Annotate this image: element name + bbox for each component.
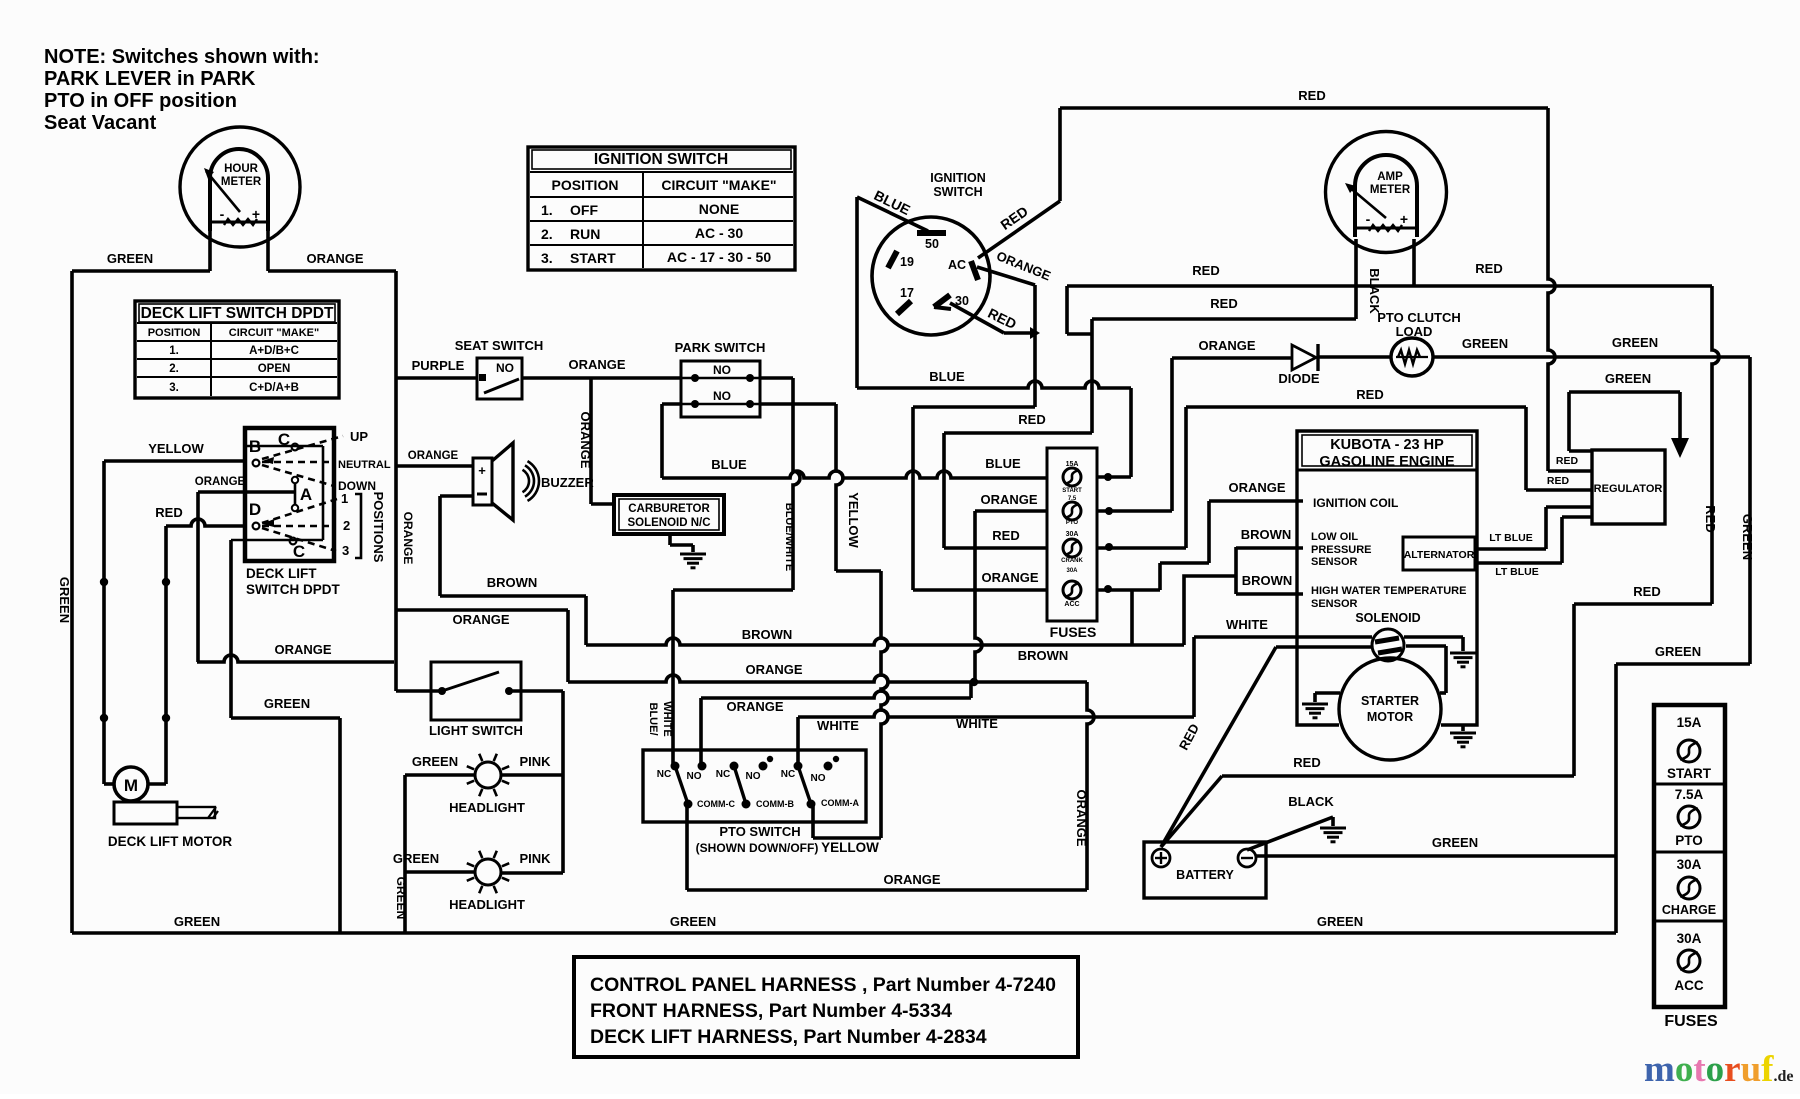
label POSITIONS bbox=[371, 492, 386, 563]
svg-text:CIRCUIT "MAKE": CIRCUIT "MAKE" bbox=[229, 327, 319, 339]
svg-text:START: START bbox=[570, 250, 616, 266]
wire GREEN clutch bbox=[1433, 355, 1750, 359]
svg-text:GREEN: GREEN bbox=[264, 696, 310, 711]
wire fuse4 right brown bus bbox=[1097, 547, 1303, 645]
wire park row2 to yellow bbox=[760, 404, 888, 838]
fuse panel right bbox=[1654, 705, 1725, 1007]
svg-text:KUBOTA - 23 HP: KUBOTA - 23 HP bbox=[1330, 437, 1444, 453]
svg-text:REGULATOR: REGULATOR bbox=[1594, 483, 1663, 495]
wire headlight2 pink bbox=[502, 871, 563, 875]
label WHITE 2 bbox=[956, 716, 998, 731]
svg-text:CRANK: CRANK bbox=[1061, 558, 1083, 564]
wire amp meter plus bbox=[1412, 239, 1416, 286]
wire PURPLE bbox=[396, 376, 477, 380]
wire ORANGE to COMM-C bbox=[687, 682, 1094, 890]
wire light switch left bbox=[396, 689, 442, 693]
label GREEN bottom left bbox=[174, 914, 220, 929]
svg-text:IGNITION SWITCH: IGNITION SWITCH bbox=[594, 151, 728, 168]
label RED amp right bbox=[1475, 261, 1502, 276]
svg-text:ORANGE: ORANGE bbox=[745, 662, 802, 677]
label YELLOW bottom bbox=[821, 840, 879, 855]
pto clutch load coil bbox=[1391, 338, 1433, 376]
svg-text:RED: RED bbox=[1633, 584, 1660, 599]
svg-text:PARK LEVER in PARK: PARK LEVER in PARK bbox=[44, 68, 256, 90]
svg-text:C: C bbox=[278, 430, 290, 449]
svg-text:PRESSURE: PRESSURE bbox=[1311, 544, 1372, 556]
label DIODE bbox=[1278, 371, 1320, 386]
svg-text:WHITE: WHITE bbox=[817, 718, 859, 733]
svg-text:C+D/A+B: C+D/A+B bbox=[249, 382, 299, 394]
svg-text:ORANGE: ORANGE bbox=[1198, 338, 1255, 353]
battery bbox=[1144, 842, 1266, 898]
label ORANGE seat-park bbox=[568, 357, 625, 372]
svg-text:30A: 30A bbox=[1066, 531, 1079, 538]
wire yellow vertical bbox=[100, 461, 108, 784]
svg-text:30A: 30A bbox=[1677, 931, 1702, 946]
svg-text:RED: RED bbox=[1018, 412, 1045, 427]
svg-text:SEAT SWITCH: SEAT SWITCH bbox=[455, 338, 544, 353]
wire BLUE ignition horizontal bbox=[857, 381, 1131, 477]
deck switch dashed 3 ray bbox=[262, 528, 336, 551]
label ORANGE AC diag bbox=[994, 248, 1053, 283]
svg-text:15A: 15A bbox=[1066, 461, 1079, 468]
svg-text:LIGHT SWITCH: LIGHT SWITCH bbox=[429, 723, 523, 738]
label BLUE left bbox=[711, 457, 747, 472]
ignition terminal 17 bbox=[897, 286, 914, 314]
label ORANGE vertical seat bbox=[401, 512, 415, 565]
svg-text:BROWN: BROWN bbox=[1018, 648, 1069, 663]
svg-text:GREEN: GREEN bbox=[1432, 835, 1478, 850]
svg-text:YELLOW: YELLOW bbox=[148, 441, 204, 456]
label FUSES right bbox=[1664, 1013, 1718, 1030]
label BLUE/ WHITE lower bbox=[647, 701, 673, 736]
svg-text:BLUE: BLUE bbox=[711, 457, 747, 472]
svg-text:BATTERY: BATTERY bbox=[1176, 868, 1234, 882]
label ORANGE comm vertical bbox=[1074, 789, 1089, 846]
buzzer bbox=[473, 443, 539, 520]
label IGNITION COIL bbox=[1313, 496, 1398, 510]
svg-text:ORANGE: ORANGE bbox=[981, 570, 1038, 585]
deck lift switch DPDT box bbox=[231, 428, 334, 561]
wire RED AC vertical right bbox=[1548, 108, 1592, 471]
label GREEN bottom right bbox=[1317, 914, 1363, 929]
svg-text:NC: NC bbox=[657, 769, 671, 780]
green arrow into regulator bbox=[1569, 392, 1689, 458]
label ORANGE carb vertical bbox=[578, 411, 593, 468]
wire red vertical bbox=[162, 526, 170, 784]
label PTO SWITCH bbox=[696, 824, 819, 855]
svg-text:RED: RED bbox=[1356, 387, 1383, 402]
wire red Z to junction bbox=[1067, 286, 1092, 334]
wire fuse2 right to diode bbox=[1097, 358, 1292, 515]
svg-text:METER: METER bbox=[1370, 184, 1411, 196]
deck switch contact A bbox=[292, 477, 312, 511]
wire YELLOW to deck switch bbox=[104, 459, 245, 463]
svg-text:FUSES: FUSES bbox=[1050, 624, 1097, 640]
svg-text:GREEN: GREEN bbox=[1612, 335, 1658, 350]
svg-text:BLUE: BLUE bbox=[985, 456, 1021, 471]
svg-text:PTO SWITCH: PTO SWITCH bbox=[719, 824, 800, 839]
svg-text:BLUE: BLUE bbox=[929, 369, 965, 384]
svg-text:WHITE: WHITE bbox=[956, 716, 998, 731]
wire RED to deck switch bbox=[166, 519, 245, 526]
svg-text:METER: METER bbox=[221, 176, 262, 188]
svg-text:BLUE/: BLUE/ bbox=[647, 703, 659, 736]
label ORANGE comm bottom bbox=[883, 872, 940, 887]
svg-text:motoruf.de: motoruf.de bbox=[1644, 1049, 1794, 1090]
wire orange deck vertical bbox=[196, 492, 200, 662]
svg-text:17: 17 bbox=[900, 286, 914, 300]
svg-text:SOLENOID N/C: SOLENOID N/C bbox=[627, 517, 710, 529]
svg-text:START: START bbox=[1062, 488, 1082, 494]
label RED regulator lower bbox=[1547, 475, 1570, 487]
svg-text:+: + bbox=[478, 463, 486, 478]
svg-text:CIRCUIT "MAKE": CIRCUIT "MAKE" bbox=[661, 177, 776, 193]
svg-text:NC: NC bbox=[781, 769, 795, 780]
label 3 bbox=[342, 543, 349, 558]
svg-text:30A: 30A bbox=[1677, 857, 1702, 872]
svg-text:ALTERNATOR: ALTERNATOR bbox=[1404, 549, 1475, 561]
svg-text:BUZZER: BUZZER bbox=[541, 475, 594, 490]
label BLACK battery bbox=[1288, 794, 1334, 809]
headlight 2 bbox=[467, 851, 509, 893]
label ORANGE coil bbox=[1228, 480, 1285, 495]
svg-text:GREEN: GREEN bbox=[394, 877, 408, 920]
svg-text:BLUE/WHITE: BLUE/WHITE bbox=[783, 503, 795, 571]
label GREEN clutch1 bbox=[1462, 336, 1508, 351]
wire starter left ground bbox=[1315, 693, 1340, 702]
deck switch contact B bbox=[249, 437, 261, 466]
svg-text:-: - bbox=[1366, 211, 1371, 227]
pto NO dots bbox=[698, 756, 840, 771]
svg-text:RUN: RUN bbox=[570, 226, 600, 242]
positions bracket bbox=[355, 494, 361, 558]
svg-text:ORANGE: ORANGE bbox=[274, 642, 331, 657]
svg-text:COMM-C: COMM-C bbox=[697, 799, 735, 809]
wire green deck vertical bbox=[231, 540, 340, 933]
svg-text:SWITCH DPDT: SWITCH DPDT bbox=[246, 582, 340, 597]
svg-text:CARBURETOR: CARBURETOR bbox=[628, 503, 710, 515]
wire orange deck bottom bbox=[197, 655, 394, 662]
wire orange branch to carburetor bbox=[591, 378, 614, 504]
ignition terminal 50 bbox=[917, 233, 946, 251]
svg-text:NO: NO bbox=[713, 363, 731, 377]
svg-text:DECK LIFT MOTOR: DECK LIFT MOTOR bbox=[108, 834, 232, 849]
deck switch dashed DOWN ray bbox=[262, 465, 334, 486]
svg-text:AMP: AMP bbox=[1377, 171, 1403, 183]
wire ORANGE run A bbox=[396, 610, 1087, 686]
svg-text:SOLENOID: SOLENOID bbox=[1355, 611, 1420, 625]
svg-text:D: D bbox=[249, 500, 261, 519]
svg-text:NO: NO bbox=[746, 771, 761, 782]
label ORANGE hour meter bbox=[306, 251, 363, 266]
svg-text:GREEN: GREEN bbox=[57, 577, 72, 623]
svg-text:IGNITION COIL: IGNITION COIL bbox=[1313, 496, 1398, 510]
label LOW OIL PRESSURE SENSOR bbox=[1311, 531, 1372, 568]
svg-text:3: 3 bbox=[342, 543, 349, 558]
label DECK LIFT MOTOR bbox=[108, 834, 232, 849]
svg-text:SENSOR: SENSOR bbox=[1311, 556, 1358, 568]
svg-text:-: - bbox=[220, 206, 225, 222]
svg-text:1.: 1. bbox=[169, 345, 179, 357]
label RED 30 diag bbox=[985, 305, 1019, 332]
svg-text:RED: RED bbox=[1475, 261, 1502, 276]
svg-text:NO: NO bbox=[687, 771, 702, 782]
svg-text:BROWN: BROWN bbox=[1242, 573, 1293, 588]
svg-text:1: 1 bbox=[341, 491, 348, 506]
wire hour meter to green bbox=[72, 230, 210, 933]
wire GREEN bottom bbox=[72, 931, 1616, 935]
alternator box bbox=[1403, 537, 1475, 570]
svg-text:LT BLUE: LT BLUE bbox=[1495, 566, 1539, 578]
label RED fuse3 bbox=[992, 528, 1019, 543]
label YELLOW vertical bbox=[846, 492, 861, 548]
svg-text:ORANGE: ORANGE bbox=[408, 450, 459, 462]
label HIGH WATER TEMPERATURE SENSOR bbox=[1311, 585, 1466, 610]
wire RED 30 diag bbox=[950, 303, 1040, 339]
diode D1 bbox=[1292, 344, 1391, 371]
svg-text:15A: 15A bbox=[1677, 715, 1702, 730]
label BUZZER bbox=[541, 475, 594, 490]
wire BROWN buzzer bbox=[440, 496, 586, 645]
svg-text:NO: NO bbox=[713, 389, 731, 403]
label ORANGE deck bottom bbox=[274, 642, 331, 657]
deck lift switch table bbox=[135, 301, 339, 398]
svg-text:GREEN: GREEN bbox=[1605, 371, 1651, 386]
label GREEN deck bbox=[264, 696, 310, 711]
label RED deck bbox=[155, 505, 182, 520]
svg-text:POSITION: POSITION bbox=[148, 327, 201, 339]
wire RED amp row bbox=[1067, 284, 1712, 288]
svg-text:2.: 2. bbox=[541, 226, 553, 242]
svg-text:ORANGE: ORANGE bbox=[883, 872, 940, 887]
svg-text:B: B bbox=[249, 437, 261, 456]
svg-text:HEADLIGHT: HEADLIGHT bbox=[449, 897, 525, 912]
svg-text:DIODE: DIODE bbox=[1278, 371, 1320, 386]
label BLUE/WHITE upper bbox=[783, 503, 795, 571]
label 2 bbox=[343, 518, 350, 533]
svg-text:PINK: PINK bbox=[519, 851, 551, 866]
svg-text:BROWN: BROWN bbox=[742, 627, 793, 642]
wire solenoid right ground bbox=[1404, 637, 1463, 651]
label PARK SWITCH bbox=[675, 340, 766, 355]
wire headlight2 green bbox=[405, 870, 474, 874]
svg-text:Seat Vacant: Seat Vacant bbox=[44, 112, 157, 134]
svg-text:RED: RED bbox=[1210, 296, 1237, 311]
label ORANGE A1 bbox=[452, 612, 509, 627]
label WHITE 1 bbox=[817, 718, 859, 733]
wire park row1 to blue/white bbox=[673, 378, 800, 766]
seat switch bbox=[477, 358, 522, 399]
label SEAT SWITCH bbox=[455, 338, 544, 353]
label GREEN bottom mid bbox=[670, 914, 716, 929]
label PURPLE bbox=[412, 358, 465, 373]
svg-text:START: START bbox=[1667, 766, 1712, 781]
wire park row2 left to blue bbox=[662, 404, 681, 478]
svg-text:ORANGE: ORANGE bbox=[980, 492, 1037, 507]
label GREEN headlight2 bbox=[393, 851, 439, 866]
ignition terminal AC bbox=[948, 258, 978, 280]
svg-text:PTO CLUTCH: PTO CLUTCH bbox=[1377, 310, 1461, 325]
svg-text:PURPLE: PURPLE bbox=[412, 358, 465, 373]
svg-text:NOTE: Switches shown with:: NOTE: Switches shown with: bbox=[44, 46, 320, 68]
fuse block center bbox=[1047, 448, 1097, 621]
svg-text:POSITION: POSITION bbox=[552, 177, 619, 193]
svg-text:NO: NO bbox=[496, 361, 514, 375]
svg-text:GREEN: GREEN bbox=[412, 754, 458, 769]
label LT BLUE 2 bbox=[1495, 566, 1539, 578]
label HEADLIGHT 2 bbox=[449, 897, 525, 912]
wire BLUE to fuse1 left bbox=[662, 471, 1048, 478]
svg-text:(SHOWN DOWN/OFF): (SHOWN DOWN/OFF) bbox=[696, 841, 819, 855]
label RED regulator upper bbox=[1556, 455, 1579, 467]
label ORANGE diode bbox=[1198, 338, 1255, 353]
svg-text:A: A bbox=[300, 485, 312, 504]
svg-text:LOW OIL: LOW OIL bbox=[1311, 531, 1358, 543]
svg-text:CHARGE: CHARGE bbox=[1662, 903, 1716, 917]
wire RED battery to solenoid bbox=[1161, 647, 1372, 847]
svg-text:ORANGE: ORANGE bbox=[1074, 789, 1089, 846]
label LIGHT SWITCH bbox=[429, 723, 523, 738]
deck switch dashed NEUTRAL ray bbox=[262, 461, 334, 464]
svg-text:RED: RED bbox=[1703, 505, 1718, 532]
label BLUE right bbox=[985, 456, 1021, 471]
deck switch dashed UP ray bbox=[262, 436, 343, 464]
deck switch contact C top bbox=[278, 430, 299, 450]
svg-text:PINK: PINK bbox=[519, 754, 551, 769]
svg-text:RED: RED bbox=[992, 528, 1019, 543]
ground solenoid bbox=[1450, 653, 1476, 667]
label YELLOW bbox=[148, 441, 204, 456]
svg-text:PARK SWITCH: PARK SWITCH bbox=[675, 340, 766, 355]
label UP bbox=[350, 429, 368, 444]
svg-text:RED: RED bbox=[1293, 755, 1320, 770]
wire fuse3 left red bbox=[944, 546, 1048, 550]
svg-text:3.: 3. bbox=[169, 382, 179, 394]
svg-text:50: 50 bbox=[925, 237, 939, 251]
svg-text:2.: 2. bbox=[169, 363, 179, 375]
headlight 1 bbox=[467, 754, 509, 796]
svg-text:HIGH WATER TEMPERATURE: HIGH WATER TEMPERATURE bbox=[1311, 585, 1466, 597]
svg-text:GREEN: GREEN bbox=[1740, 514, 1755, 560]
svg-text:AC - 17 - 30 - 50: AC - 17 - 30 - 50 bbox=[667, 249, 771, 265]
pto pole C bbox=[671, 762, 693, 809]
label LT BLUE 1 bbox=[1489, 532, 1533, 544]
svg-text:ORANGE: ORANGE bbox=[306, 251, 363, 266]
pto switch box bbox=[643, 750, 866, 822]
deck lift motor M bbox=[104, 767, 166, 801]
label SOLENOID bbox=[1355, 611, 1420, 625]
label GREEN battery bbox=[1432, 835, 1478, 850]
label ORANGE NO-C bbox=[726, 699, 783, 714]
label PINK headlight2 bbox=[519, 851, 551, 866]
svg-text:LT BLUE: LT BLUE bbox=[1489, 532, 1533, 544]
svg-text:YELLOW: YELLOW bbox=[846, 492, 861, 548]
svg-text:NONE: NONE bbox=[699, 201, 739, 217]
svg-text:ORANGE: ORANGE bbox=[568, 357, 625, 372]
label NEUTRAL bbox=[338, 459, 391, 471]
starter motor bbox=[1339, 658, 1441, 760]
label BLUE horiz bbox=[929, 369, 965, 384]
svg-text:AC - 30: AC - 30 bbox=[695, 225, 743, 241]
svg-text:19: 19 bbox=[900, 255, 914, 269]
wire ORANGE deck A bbox=[198, 490, 294, 494]
svg-text:PTO in OFF position: PTO in OFF position bbox=[44, 90, 237, 112]
wire ORANGE ignition coil bbox=[1160, 501, 1303, 590]
svg-text:MOTOR: MOTOR bbox=[1367, 710, 1413, 724]
svg-text:DECK LIFT HARNESS, Part Number: DECK LIFT HARNESS, Part Number 4-2834 bbox=[590, 1026, 987, 1048]
label BLUE diag bbox=[872, 187, 913, 218]
deck lift actuator bbox=[114, 802, 218, 824]
svg-text:GASOLINE ENGINE: GASOLINE ENGINE bbox=[1319, 454, 1455, 470]
svg-text:FRONT HARNESS, Part Number 4-5: FRONT HARNESS, Part Number 4-5334 bbox=[590, 1000, 952, 1022]
label GREEN left vertical bbox=[57, 577, 72, 623]
svg-text:RED: RED bbox=[1556, 455, 1579, 467]
engine box KUBOTA bbox=[1297, 431, 1477, 725]
wire RED AC to top bbox=[978, 108, 1060, 258]
svg-text:HEADLIGHT: HEADLIGHT bbox=[449, 800, 525, 815]
label RED top bbox=[1298, 88, 1325, 103]
svg-text:SWITCH: SWITCH bbox=[933, 185, 982, 199]
wire BROWN run bbox=[586, 638, 1184, 645]
wire green headlight vertical bbox=[403, 775, 407, 933]
svg-text:A+D/B+C: A+D/B+C bbox=[249, 345, 299, 357]
deck switch dashed 1 ray bbox=[262, 499, 337, 527]
note text block bbox=[44, 46, 320, 134]
wire orange vertical to light switch bbox=[394, 271, 398, 691]
svg-text:GREEN: GREEN bbox=[174, 914, 220, 929]
label RED AC diag bbox=[997, 203, 1030, 233]
svg-text:ORANGE: ORANGE bbox=[1228, 480, 1285, 495]
wire ORANGE seat to park bbox=[522, 376, 681, 380]
ignition switch table bbox=[528, 147, 795, 270]
label BROWN sensor2 bbox=[1242, 573, 1293, 588]
svg-text:IGNITION: IGNITION bbox=[930, 171, 986, 185]
deck switch dashed 2 ray bbox=[262, 525, 336, 528]
svg-text:GREEN: GREEN bbox=[393, 851, 439, 866]
label RED battery diag bbox=[1176, 721, 1202, 752]
park switch bbox=[681, 361, 760, 417]
light switch bbox=[431, 662, 521, 720]
svg-text:WHITE: WHITE bbox=[661, 701, 673, 736]
solenoid bbox=[1372, 629, 1404, 661]
wire headlight1 pink bbox=[502, 773, 563, 777]
svg-text:CONTROL PANEL HARNESS , Part N: CONTROL PANEL HARNESS , Part Number 4-72… bbox=[590, 974, 1056, 996]
wire ORANGE AC bbox=[913, 267, 1035, 590]
pto labels COMM bbox=[697, 798, 859, 809]
wire fuse3 right to regulator bbox=[1097, 407, 1592, 551]
svg-text:GREEN: GREEN bbox=[1317, 914, 1363, 929]
wire fuse4 left orange bbox=[913, 588, 1048, 592]
svg-text:GREEN: GREEN bbox=[1462, 336, 1508, 351]
wire starter right to solenoid bbox=[1406, 646, 1446, 693]
svg-text:BROWN: BROWN bbox=[1241, 527, 1292, 542]
regulator box bbox=[1592, 450, 1665, 524]
svg-text:ORANGE: ORANGE bbox=[578, 411, 593, 468]
label ORANGE buzzer bbox=[408, 450, 459, 462]
wire amp meter minus bbox=[1354, 239, 1358, 319]
wire headlight1 green bbox=[405, 773, 474, 777]
wire light switch right bbox=[509, 691, 563, 873]
wire RED top horizontal bbox=[1060, 106, 1548, 110]
wire RED right vertical bbox=[1161, 286, 1719, 847]
amp meter bbox=[1326, 132, 1447, 253]
svg-text:UP: UP bbox=[350, 429, 368, 444]
svg-text:OFF: OFF bbox=[570, 202, 598, 218]
svg-text:RED: RED bbox=[1298, 88, 1325, 103]
label RED mid bbox=[1633, 584, 1660, 599]
label BROWN 1 bbox=[487, 575, 538, 590]
